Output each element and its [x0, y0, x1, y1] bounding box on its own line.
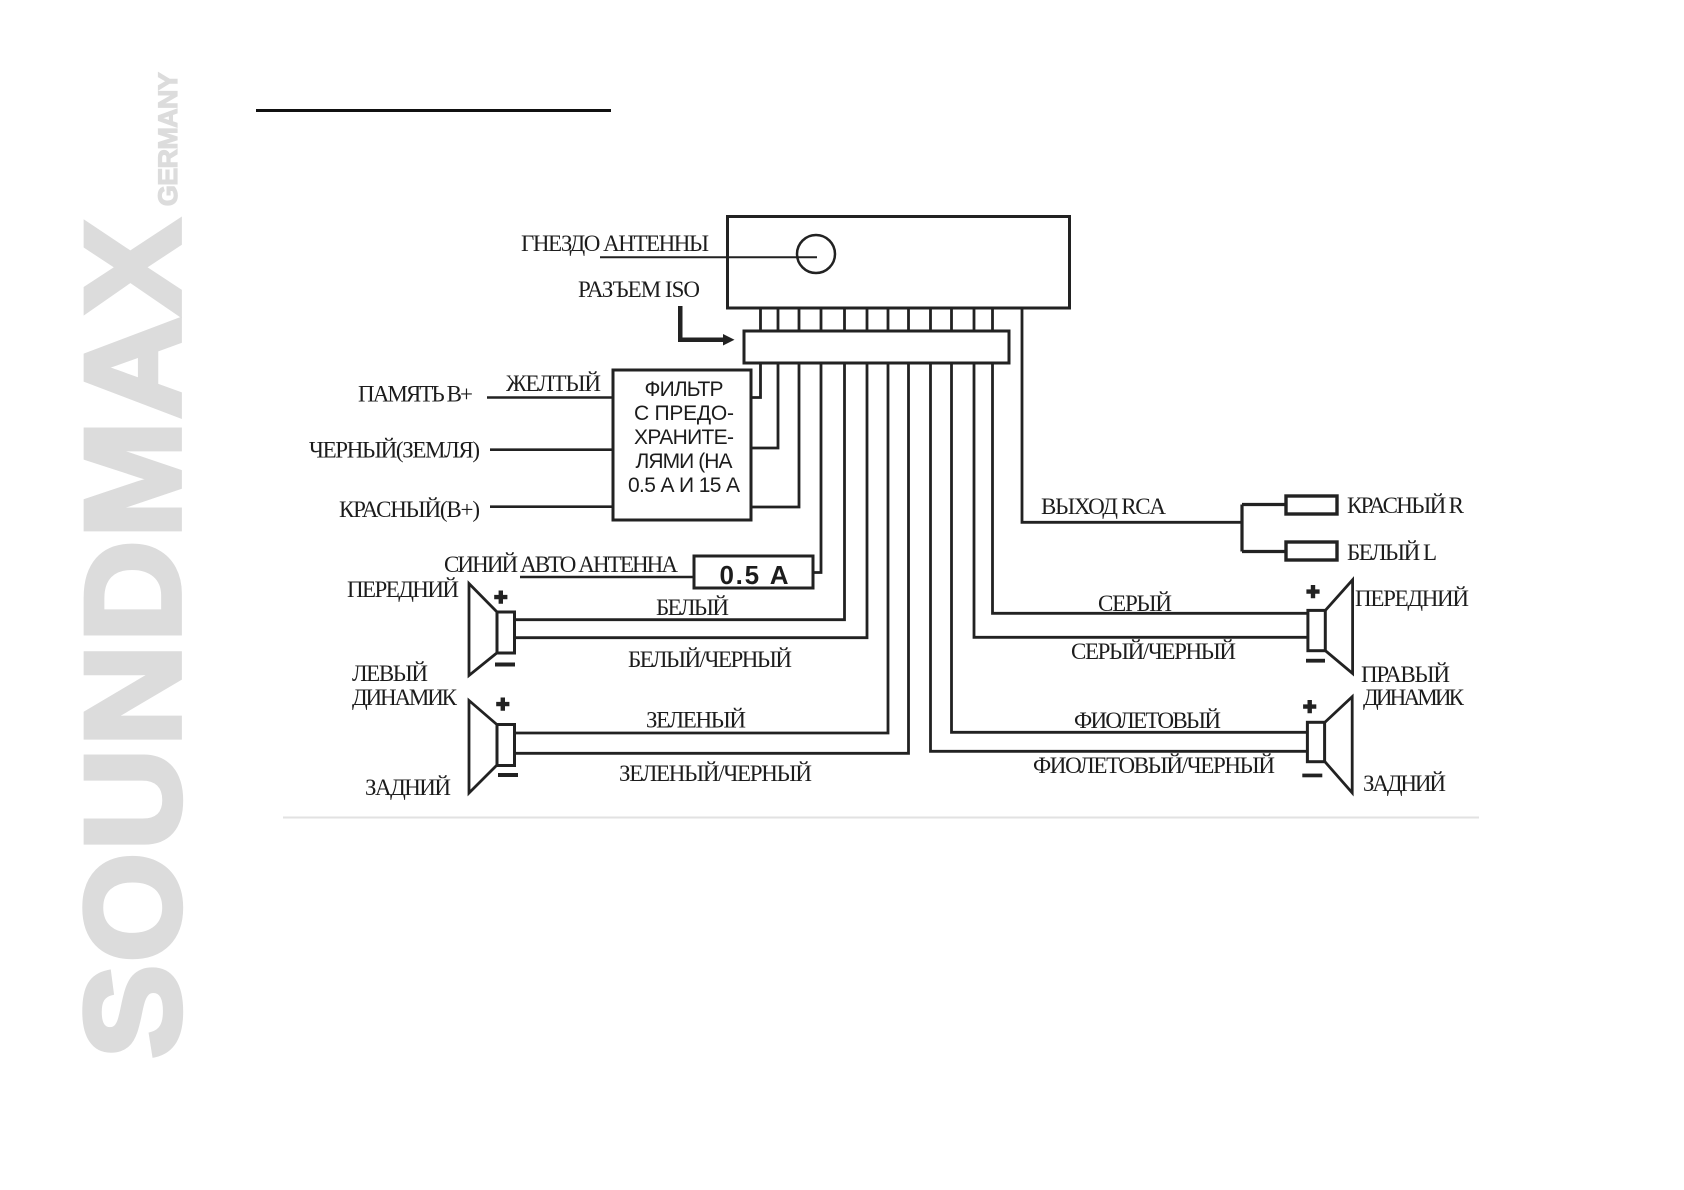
svg-text:ХРАНИТЕ-: ХРАНИТЕ-	[634, 426, 734, 449]
svg-text:СЕРЫЙ/ЧЕРНЫЙ: СЕРЫЙ/ЧЕРНЫЙ	[1071, 639, 1236, 664]
svg-text:БЕЛЫЙ/ЧЕРНЫЙ: БЕЛЫЙ/ЧЕРНЫЙ	[628, 647, 792, 672]
svg-text:ДИНАМИК: ДИНАМИК	[352, 685, 458, 710]
svg-text:ПАМЯТЬ В+: ПАМЯТЬ В+	[358, 382, 473, 407]
svg-text:ЧЕРНЫЙ(ЗЕМЛЯ): ЧЕРНЫЙ(ЗЕМЛЯ)	[309, 438, 480, 463]
svg-text:БЕЛЫЙ: БЕЛЫЙ	[656, 595, 729, 620]
svg-text:ФИЛЬТР: ФИЛЬТР	[645, 378, 724, 401]
svg-text:GERMANY: GERMANY	[153, 72, 183, 206]
svg-text:ЗАДНИЙ: ЗАДНИЙ	[365, 775, 451, 800]
svg-text:СИНИЙ АВТО АНТЕННА: СИНИЙ АВТО АНТЕННА	[444, 552, 678, 577]
svg-text:0.5 А: 0.5 А	[720, 560, 789, 590]
svg-text:ЗЕЛЕНЫЙ: ЗЕЛЕНЫЙ	[646, 708, 746, 733]
svg-text:ВЫХОД RCA: ВЫХОД RCA	[1041, 494, 1166, 519]
svg-text:ЛЯМИ (НА: ЛЯМИ (НА	[636, 450, 733, 473]
svg-text:ДИНАМИК: ДИНАМИК	[1363, 685, 1465, 710]
svg-text:СЕРЫЙ: СЕРЫЙ	[1098, 591, 1172, 616]
svg-text:ПЕРЕДНИЙ: ПЕРЕДНИЙ	[1355, 586, 1469, 611]
svg-text:ФИОЛЕТОВЫЙ: ФИОЛЕТОВЫЙ	[1074, 708, 1221, 733]
svg-text:ПЕРЕДНИЙ: ПЕРЕДНИЙ	[347, 577, 459, 602]
svg-text:ЛЕВЫЙ: ЛЕВЫЙ	[352, 661, 428, 686]
svg-text:КРАСНЫЙ R: КРАСНЫЙ R	[1347, 493, 1465, 518]
svg-text:ЖЕЛТЫЙ: ЖЕЛТЫЙ	[506, 371, 601, 396]
svg-text:КРАСНЫЙ(В+): КРАСНЫЙ(В+)	[339, 497, 480, 522]
svg-text:ГНЕЗДО АНТЕННЫ: ГНЕЗДО АНТЕННЫ	[521, 231, 709, 256]
svg-text:БЕЛЫЙ L: БЕЛЫЙ L	[1347, 540, 1437, 565]
svg-text:РАЗЪЕМ ISO: РАЗЪЕМ ISO	[578, 277, 700, 302]
svg-text:ФИОЛЕТОВЫЙ/ЧЕРНЫЙ: ФИОЛЕТОВЫЙ/ЧЕРНЫЙ	[1033, 753, 1275, 778]
svg-text:С ПРЕДО-: С ПРЕДО-	[634, 402, 734, 425]
svg-text:ПРАВЫЙ: ПРАВЫЙ	[1361, 662, 1450, 687]
svg-text:ЗЕЛЕНЫЙ/ЧЕРНЫЙ: ЗЕЛЕНЫЙ/ЧЕРНЫЙ	[619, 761, 812, 786]
svg-text:SOUNDMAX: SOUNDMAX	[59, 218, 209, 1059]
svg-text:ЗАДНИЙ: ЗАДНИЙ	[1363, 771, 1446, 796]
svg-text:0.5 А И 15 А: 0.5 А И 15 А	[628, 474, 740, 497]
